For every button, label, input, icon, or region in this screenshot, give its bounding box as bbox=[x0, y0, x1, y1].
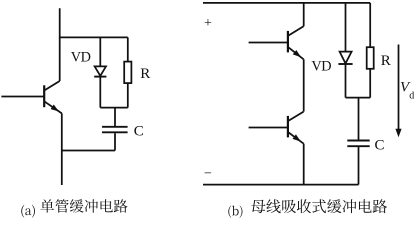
svg-text:+: + bbox=[204, 16, 212, 31]
svg-text:VD: VD bbox=[311, 59, 331, 75]
svg-text:C: C bbox=[375, 138, 385, 154]
svg-text:VD: VD bbox=[71, 49, 91, 65]
svg-text:d: d bbox=[409, 91, 414, 102]
svg-text:R: R bbox=[140, 66, 150, 82]
svg-text:C: C bbox=[134, 123, 144, 139]
svg-text:R: R bbox=[381, 53, 391, 69]
svg-text:−: − bbox=[204, 166, 212, 181]
